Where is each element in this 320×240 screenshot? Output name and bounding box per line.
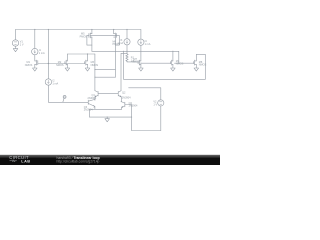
- wire gate bus: [38, 63, 85, 65]
- wire I3 to R1: [126, 45, 128, 54]
- logo CircuitLab: [9, 155, 30, 163]
- ground: [33, 68, 38, 71]
- svg-text:2N3904: 2N3904: [129, 104, 138, 107]
- voltage source V2: [158, 100, 164, 106]
- transistor Q1: [95, 91, 98, 97]
- ground: [105, 117, 110, 122]
- wire M7 source: [140, 64, 142, 68]
- wire M8 source: [195, 64, 197, 68]
- transistor M8: [193, 60, 196, 65]
- svg-text:PMOS: PMOS: [80, 35, 88, 38]
- wire I1 top: [34, 30, 36, 49]
- wire Q1 base to Q2 base: [98, 93, 118, 95]
- wire gate tie M4-M8: [175, 62, 194, 64]
- svg-text:NMOS: NMOS: [199, 64, 207, 67]
- transistor M5: [89, 33, 92, 38]
- ground: [13, 49, 18, 52]
- wire output A: [124, 78, 206, 80]
- wire M6 drain down: [114, 38, 116, 77]
- wire I4 to M7: [140, 45, 142, 61]
- transistor M6: [114, 33, 117, 38]
- transistor M2: [65, 60, 68, 65]
- wire R1 to M7 gate: [127, 60, 138, 63]
- wire arch top: [95, 69, 116, 71]
- node bus-I2 junction: [48, 63, 49, 64]
- svg-text:1 V: 1 V: [20, 44, 24, 47]
- node rail junctions: [34, 29, 179, 118]
- wire Q2 emitter down: [120, 97, 122, 102]
- svg-text:1 mA: 1 mA: [39, 52, 45, 55]
- current source I3: [124, 39, 130, 45]
- svg-text:2N3904: 2N3904: [88, 97, 97, 100]
- wire M6 gate loop: [115, 35, 119, 45]
- ground: [171, 68, 176, 71]
- wire M8 drain loop: [196, 54, 205, 79]
- wire V2 riser: [160, 106, 162, 131]
- svg-text:2N3904: 2N3904: [84, 108, 93, 111]
- svg-text:1 V: 1 V: [153, 104, 157, 107]
- svg-text:NMOS: NMOS: [176, 63, 184, 66]
- wire gate tie M5-M6: [90, 34, 117, 36]
- wire mirror out: [92, 50, 179, 52]
- transistor M3: [85, 60, 88, 65]
- svg-text:NMOS: NMOS: [56, 64, 64, 67]
- wire M1 source: [34, 64, 36, 68]
- wire M5 drain down: [91, 37, 93, 51]
- current source I4: [138, 39, 144, 45]
- svg-text:2N3904: 2N3904: [122, 97, 131, 100]
- transistor Q3: [88, 99, 95, 107]
- wire supply rail: [16, 29, 141, 31]
- wire ground bus: [90, 116, 132, 118]
- svg-text:1 mA: 1 mA: [145, 43, 151, 46]
- wire Q1 collector riser: [94, 54, 96, 91]
- svg-text:NMOS: NMOS: [91, 64, 99, 67]
- wire V1 bottom: [15, 46, 17, 48]
- wire A drop: [123, 51, 125, 79]
- wire right drop: [131, 105, 133, 131]
- wire M6 source to rail: [113, 30, 115, 34]
- wire M2 drain up: [66, 54, 68, 61]
- wire I1 to M1: [34, 55, 36, 61]
- transistor Q2: [118, 91, 121, 97]
- ground: [85, 68, 90, 71]
- ground: [194, 68, 199, 71]
- wire left drop: [89, 109, 91, 117]
- svg-text:LAB: LAB: [21, 160, 30, 164]
- wire V2 top: [129, 88, 161, 100]
- current source I2: [45, 79, 51, 85]
- wire M7 to M4 gate: [141, 62, 171, 64]
- wire arch bottom: [95, 76, 116, 78]
- wire rail corner to I4: [140, 30, 142, 40]
- wire gate drop: [178, 51, 180, 63]
- ground: [65, 68, 70, 71]
- wire I2 to Q3 base: [48, 85, 88, 102]
- ground: [139, 68, 144, 71]
- wire M4 drain up: [172, 51, 174, 61]
- wire drain tie M2-M3: [67, 53, 95, 55]
- wire M2 source: [66, 64, 68, 68]
- svg-text:1 mA: 1 mA: [117, 42, 123, 45]
- svg-text:1 mA: 1 mA: [52, 83, 58, 86]
- wire Q4 emitter down: [121, 107, 123, 109]
- svg-text:NMOS: NMOS: [132, 61, 140, 64]
- wire Q4 base out: [125, 104, 132, 106]
- transistor M1: [35, 60, 38, 65]
- wire M4 source: [172, 64, 174, 68]
- footer text: [57, 156, 100, 164]
- svg-text:NMOS: NMOS: [25, 64, 33, 67]
- wire I2 drop from rail: [47, 30, 49, 79]
- wire emitter bus: [90, 108, 122, 110]
- wire I3 top: [126, 30, 128, 39]
- wire Q1 emitter down: [94, 97, 96, 100]
- resistor R1: [126, 54, 128, 61]
- voltage source V1: [12, 40, 18, 46]
- transistor M7: [138, 60, 141, 65]
- svg-text:http://circuitlab.com/c/g2714p: http://circuitlab.com/c/g2714p: [57, 160, 100, 164]
- wire M3 source: [87, 64, 89, 68]
- wire M5 gate loop: [87, 35, 92, 45]
- transistor M4: [171, 60, 173, 65]
- probe SW: [63, 95, 66, 98]
- wire M3 drain up: [87, 54, 89, 61]
- wire M5 source to rail: [91, 30, 93, 34]
- wire V1 top: [15, 30, 17, 40]
- current source I1: [32, 48, 38, 54]
- wire Q3 emitter down: [94, 107, 96, 110]
- wire V2 bottom: [132, 130, 161, 132]
- transistor Q4: [121, 102, 125, 108]
- wire Q2 collector riser: [121, 53, 127, 90]
